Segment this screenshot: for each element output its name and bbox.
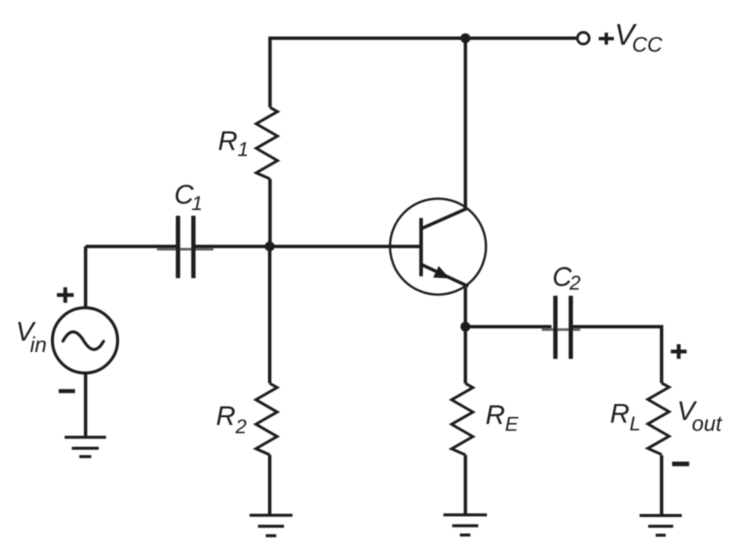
label R2 xyxy=(217,406,247,433)
resistor RE xyxy=(452,383,473,455)
wire Vin top lead xyxy=(84,246,87,308)
wire base row right of C1 xyxy=(196,245,422,248)
wire R1 bottom lead xyxy=(268,179,271,247)
plus sign at Vout xyxy=(671,344,687,359)
wire emitter xyxy=(464,288,467,327)
ground below Vin xyxy=(65,437,106,456)
label C2 xyxy=(554,267,581,290)
wire Vin bottom lead xyxy=(84,373,87,437)
ground below RE xyxy=(443,515,487,535)
label RE xyxy=(486,405,518,430)
resistor RL xyxy=(648,383,669,455)
label Vout xyxy=(679,401,722,431)
wire top rail and R1 top lead xyxy=(270,38,576,107)
wire emitter row right of C2 xyxy=(573,327,662,383)
label C1 xyxy=(176,185,201,210)
capacitor C1 xyxy=(178,216,193,278)
plus sign of +VCC xyxy=(599,33,614,45)
wire RE top lead xyxy=(464,327,467,384)
artifact gray line under C1 lead xyxy=(157,248,214,251)
node N1 collector rail junction xyxy=(460,33,470,43)
wire collector xyxy=(464,38,467,209)
node N2 base junction xyxy=(265,241,275,251)
resistor R2 xyxy=(256,383,277,455)
label RL xyxy=(611,404,639,430)
transistor Q1 xyxy=(390,199,486,295)
wire R2 top lead xyxy=(268,246,271,383)
minus sign at Vin xyxy=(59,389,75,393)
label R1 xyxy=(219,131,247,156)
ground below RL xyxy=(640,516,682,536)
wire emitter row left of C2 xyxy=(465,325,551,328)
terminal +VCC open circle xyxy=(577,32,589,44)
minus sign at Vout xyxy=(672,462,689,467)
plus sign at Vin xyxy=(57,287,74,303)
wire RE bottom lead xyxy=(464,455,467,515)
source Vin xyxy=(52,308,117,373)
wire input row left of C1 xyxy=(86,245,176,248)
wire RL bottom lead xyxy=(660,455,663,515)
ground below R2 xyxy=(250,515,293,536)
resistor R1 xyxy=(256,107,277,178)
capacitor C2 xyxy=(555,296,570,359)
label Vin xyxy=(18,322,46,352)
wire R2 bottom lead xyxy=(268,455,271,515)
label +VCC xyxy=(617,24,662,52)
artifact gray line under C2 lead xyxy=(542,328,581,331)
node N3 emitter junction xyxy=(460,322,470,332)
